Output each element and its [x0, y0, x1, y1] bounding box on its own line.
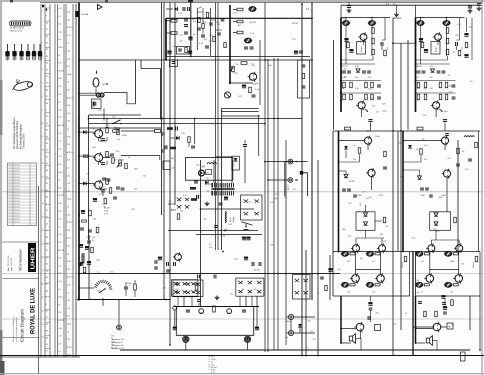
- bl res: [83, 267, 86, 273]
- amp B caps left dark: [419, 38, 423, 40]
- driver L top res: [345, 127, 351, 130]
- svg-text:C45: C45: [348, 235, 351, 237]
- svg-text:15k: 15k: [355, 77, 358, 79]
- amp A row wires: [341, 92, 381, 94]
- band rail y56.4: [166, 55, 310, 57]
- svg-text:4,7k: 4,7k: [368, 77, 371, 79]
- bus x274: [273, 58, 275, 350]
- amp B row1 caps: [417, 70, 421, 72]
- stage1 right resistor: [155, 130, 161, 133]
- record switch left: [172, 280, 198, 297]
- driver R top res: [417, 127, 423, 130]
- chain resistor R201: [237, 8, 243, 11]
- stage3 res c: [104, 198, 107, 204]
- band item x207: [205, 45, 209, 47]
- svg-text:12.5.70 geänd.: 12.5.70 geänd.: [9, 177, 21, 179]
- svg-text:22: 22: [42, 310, 44, 312]
- wire y128: [79, 127, 162, 129]
- br series chain R: [443, 306, 447, 308]
- bl cap pair: [81, 253, 83, 257]
- amp A row3 cap: [377, 96, 381, 98]
- stage transistor T3: [95, 181, 103, 189]
- svg-text:0,1: 0,1: [67, 168, 70, 170]
- amp A out wire: [370, 123, 372, 132]
- svg-text:bei Stellung Wiedergabe: bei Stellung Wiedergabe: [19, 123, 22, 149]
- svg-text:15k: 15k: [111, 336, 114, 338]
- bc extra caps: [154, 260, 156, 264]
- bus79 lower parts: [82, 220, 87, 222]
- svg-text:1k: 1k: [67, 331, 69, 333]
- monitor switch box: [293, 275, 311, 300]
- stage1 coupling res: [113, 130, 119, 133]
- osc cap C32: [194, 180, 198, 182]
- amp A bus top stub: [340, 5, 342, 17]
- svg-text:2,2k: 2,2k: [417, 88, 421, 90]
- svg-text:0,1: 0,1: [417, 77, 420, 79]
- ob0 oval a: [342, 252, 348, 256]
- driver L res right: [384, 151, 387, 157]
- amp A out arrow: [365, 109, 368, 112]
- bus x286: [285, 140, 287, 345]
- driver L transistor b: [368, 169, 375, 176]
- bc frame: [176, 307, 253, 336]
- chain trimmer P201: [230, 67, 234, 72]
- stage 2 collector res: [106, 151, 109, 157]
- din lower wires: [290, 320, 292, 331]
- bias wire y230.5: [168, 230, 258, 232]
- revision table: [8, 163, 37, 226]
- right mid column parts: [320, 276, 324, 278]
- svg-text:3: 3: [42, 56, 43, 58]
- driver R diode box: [430, 212, 451, 231]
- svg-text:19: 19: [42, 270, 44, 272]
- svg-text:C45: C45: [180, 34, 183, 36]
- driver R bottom transistor 1: [428, 245, 435, 252]
- bl wires: [118, 300, 120, 326]
- supply ecap pair: [242, 237, 246, 239]
- svg-text:Alle Spannungen gegen Masse: Alle Spannungen gegen Masse: [13, 116, 16, 149]
- svg-text:C45: C45: [179, 41, 182, 43]
- svg-text:10k: 10k: [67, 51, 70, 53]
- bc ecap left: [158, 257, 162, 259]
- svg-text:12.5.70 geänd.: 12.5.70 geänd.: [9, 222, 21, 224]
- scan edge left: [0, 0, 2, 375]
- br series chain L: [368, 302, 372, 304]
- svg-text:BC107: BC107: [292, 23, 299, 25]
- stage stub res 2: [84, 155, 89, 157]
- band extra cap a: [197, 27, 201, 29]
- center triple wire c: [222, 115, 259, 117]
- svg-text:17: 17: [42, 243, 44, 245]
- ob wire L: [341, 327, 356, 329]
- ob0 oval d: [367, 283, 373, 287]
- stage connect wires: [106, 119, 108, 128]
- bl res v: [134, 284, 137, 290]
- scan edge bottom: [0, 373, 484, 375]
- svg-text:Mat.Nr 1702: Mat.Nr 1702: [10, 29, 23, 32]
- din upper contact 2: [288, 178, 293, 183]
- svg-text:12.5.70 geänd.: 12.5.70 geänd.: [9, 210, 21, 212]
- svg-text:12.5.70 geänd.: 12.5.70 geänd.: [9, 198, 21, 200]
- svg-text:47n: 47n: [344, 77, 347, 79]
- din upper wire: [303, 173, 307, 196]
- svg-text:0,22: 0,22: [313, 339, 317, 341]
- left small box: [375, 325, 381, 331]
- amp B row1 caps b: [437, 70, 441, 72]
- band cap C102: [187, 7, 189, 11]
- stage3 ecap: [93, 198, 97, 200]
- amp A regler box: [357, 42, 366, 55]
- svg-text:5µ: 5µ: [359, 41, 361, 43]
- wire x160.5: [160, 69, 162, 119]
- svg-text:15k: 15k: [180, 211, 183, 213]
- ob0 res b: [375, 253, 380, 255]
- svg-text:BC107: BC107: [58, 70, 64, 72]
- scan fold line A: [0, 191, 484, 193]
- svg-text:22k: 22k: [234, 12, 237, 14]
- svg-text:BC: BC: [238, 25, 241, 27]
- bc jack b: [199, 309, 204, 314]
- stage2 out wire: [121, 155, 160, 157]
- amp A wire row2: [341, 80, 381, 82]
- driver R wires mid: [403, 161, 421, 163]
- svg-text:12.5.70 geänd.: 12.5.70 geänd.: [9, 192, 21, 194]
- primary box: [232, 156, 240, 170]
- stage1 out res: [117, 129, 120, 135]
- svg-text:47n: 47n: [362, 192, 365, 194]
- din upper feed wires: [265, 161, 288, 163]
- speaker stubs: [355, 338, 361, 340]
- br out transistor L: [356, 323, 364, 331]
- svg-text:0,47: 0,47: [202, 167, 206, 169]
- bl bus x89: [88, 235, 90, 300]
- svg-text:BC: BC: [93, 128, 96, 130]
- svg-text:Motor: Motor: [229, 217, 232, 222]
- din upper arrows: [295, 161, 298, 163]
- svg-text:12.5.70 geänd.: 12.5.70 geänd.: [9, 165, 21, 167]
- svg-text:0,1: 0,1: [58, 265, 61, 267]
- osc diode D30: [176, 136, 179, 140]
- driver L diode c: [344, 146, 348, 149]
- svg-text:10k: 10k: [347, 292, 350, 294]
- osc cap C31: [191, 145, 195, 147]
- svg-text:2,2k: 2,2k: [67, 58, 71, 60]
- chain bus x230 thick: [229, 5, 231, 83]
- bc cap row right: [251, 262, 253, 266]
- band cap C101: [182, 7, 184, 11]
- chain transistor T202: [249, 73, 256, 80]
- stage3 cap d: [113, 196, 117, 198]
- ob1 oval b: [445, 252, 451, 256]
- svg-text:Nachdruck und Vervielfältigung: Nachdruck und Vervielfältigung: [12, 317, 15, 342]
- svg-text:12.5.70 geänd.: 12.5.70 geänd.: [9, 174, 21, 176]
- ob res 400mW L: [404, 256, 407, 262]
- amp B out cap: [443, 119, 447, 121]
- svg-text:47n: 47n: [203, 22, 206, 24]
- svg-text:47n: 47n: [67, 316, 70, 318]
- svg-text:12.5.70 geänd.: 12.5.70 geänd.: [9, 180, 21, 182]
- bus x170: [169, 3, 171, 346]
- bus x161.5: [161, 3, 163, 216]
- bottom right connector: [461, 352, 466, 361]
- svg-text:6k8: 6k8: [171, 158, 174, 160]
- bus x164: [163, 3, 165, 301]
- bus x306: [305, 250, 307, 355]
- amp A row1 diode: [356, 69, 360, 72]
- svg-text:2,2k: 2,2k: [286, 189, 290, 191]
- output jack right: [246, 337, 250, 341]
- ob thick bus L low: [340, 296, 342, 343]
- mains cap left: [196, 195, 198, 199]
- svg-text:10: 10: [42, 150, 44, 152]
- svg-text:0,47: 0,47: [424, 145, 428, 147]
- signal wire y123.5: [89, 123, 266, 125]
- band cluster cap: [178, 48, 182, 50]
- svg-text:0,47: 0,47: [67, 238, 71, 240]
- twin box right parts: [302, 64, 306, 66]
- svg-text:nur mit Genehmigung gestattet: nur mit Genehmigung gestattet: [15, 317, 18, 342]
- ob frame left: [332, 252, 334, 297]
- amp A wires misc: [363, 40, 365, 45]
- svg-text:4,7k: 4,7k: [58, 258, 62, 260]
- rail y299.5: [77, 299, 170, 301]
- chain resistor R202: [237, 20, 243, 23]
- amp A transistor T3: [360, 34, 367, 41]
- chain resistor R203: [237, 31, 243, 34]
- driver L bottom transistor 2: [379, 245, 386, 252]
- mains bus x200.5: [200, 160, 202, 307]
- band extra res a: [198, 18, 200, 23]
- mains lower caps: [197, 275, 199, 279]
- bc cap b: [197, 299, 201, 301]
- svg-text:5µ: 5µ: [317, 292, 319, 294]
- svg-text:2,2k: 2,2k: [67, 183, 71, 185]
- br emitter res: [424, 311, 427, 317]
- svg-text:15: 15: [42, 217, 44, 219]
- head network cap: [93, 102, 95, 106]
- svg-text:Regler: Regler: [436, 46, 438, 52]
- transformer caps: [219, 202, 223, 204]
- amp A left wire: [333, 40, 335, 130]
- coil res: [475, 142, 478, 148]
- amp top rail y131: [333, 130, 480, 132]
- svg-text:47n: 47n: [67, 66, 70, 68]
- svg-text:0,1: 0,1: [372, 261, 375, 263]
- junction dots global: [301, 4, 303, 6]
- driver R bottom wires: [435, 230, 437, 240]
- svg-text:6,8k: 6,8k: [355, 66, 359, 68]
- bc jack a: [173, 306, 177, 310]
- svg-text:10k: 10k: [58, 24, 61, 26]
- stage 1 emitter cap: [101, 138, 105, 140]
- record line y18.3: [166, 17, 312, 19]
- speaker right: [426, 338, 429, 343]
- amp B wire row1: [416, 63, 450, 65]
- bias coil: [207, 163, 210, 165]
- amp A row1 caps b: [362, 70, 366, 72]
- sidebar divider vertical: [38, 186, 40, 374]
- bus x190.8: [190, 2, 192, 57]
- svg-text:15k: 15k: [58, 219, 61, 221]
- svg-text:22k: 22k: [248, 202, 251, 204]
- svg-text:400mW: 400mW: [402, 262, 404, 268]
- amp A row2 cap: [377, 84, 381, 86]
- bc ecap 2: [255, 327, 259, 329]
- stage 2 base stub: [79, 155, 95, 157]
- parts table header marks: [42, 5, 44, 8]
- svg-text:0,1µ: 0,1µ: [231, 165, 235, 167]
- svg-text:3,3k: 3,3k: [181, 133, 185, 135]
- amp A oval transistor b: [369, 21, 375, 25]
- box left x221.5: [221, 109, 223, 251]
- scan edge right: [481, 0, 483, 375]
- br vert x470: [469, 296, 471, 330]
- svg-text:13: 13: [42, 190, 44, 192]
- svg-text:100µ: 100µ: [273, 198, 278, 200]
- ob1 oval d: [445, 283, 451, 287]
- wire y68.5: [141, 68, 161, 70]
- stage2 pot: [119, 160, 122, 166]
- svg-text:3,3k: 3,3k: [67, 261, 71, 263]
- amp B top rail: [416, 17, 465, 19]
- center triple wire a: [222, 108, 259, 110]
- stage 1 base stub: [79, 131, 95, 133]
- mains lower gnd: [216, 296, 218, 298]
- bc jack wires: [185, 343, 187, 351]
- svg-text:Regler: Regler: [361, 46, 363, 52]
- svg-text:2,2k: 2,2k: [58, 156, 62, 158]
- driver L box diode 1: [364, 213, 368, 216]
- sidebar divider h3: [3, 337, 39, 339]
- svg-text:12.5.70 geänd.: 12.5.70 geänd.: [9, 204, 21, 206]
- band resistor R101: [171, 20, 177, 23]
- bottom rail y355.5: [0, 355, 484, 357]
- osc resistor R35: [177, 214, 180, 220]
- svg-text:0,1µ: 0,1µ: [117, 139, 121, 141]
- svg-text:3k3: 3k3: [225, 229, 228, 231]
- svg-text:18: 18: [42, 257, 44, 259]
- svg-text:3,3k: 3,3k: [67, 136, 71, 138]
- bus x215.5: [215, 3, 217, 251]
- scan fold line C: [0, 318, 484, 320]
- ob1 res b: [453, 253, 458, 255]
- amp B oval transistor a: [417, 21, 423, 25]
- svg-text:15k: 15k: [236, 64, 239, 66]
- svg-text:0,1µ: 0,1µ: [412, 238, 416, 240]
- wire x141: [140, 60, 142, 69]
- band marks x203: [202, 24, 204, 29]
- br dark cap: [441, 295, 445, 297]
- osc wires: [188, 142, 190, 147]
- band cluster box: [177, 47, 190, 55]
- svg-text:9: 9: [42, 136, 43, 138]
- svg-text:4,7k: 4,7k: [58, 133, 62, 135]
- svg-text:15k: 15k: [92, 237, 95, 239]
- supply cap a: [214, 225, 218, 227]
- svg-text:4,7k: 4,7k: [67, 160, 71, 162]
- band cap C105: [184, 31, 188, 33]
- svg-text:BC107: BC107: [58, 320, 64, 322]
- driver L dots: [338, 140, 340, 142]
- svg-text:22k: 22k: [230, 294, 233, 296]
- osc cap C30: [164, 145, 166, 149]
- svg-text:12.5.70 geänd.: 12.5.70 geänd.: [9, 183, 21, 185]
- svg-text:100µ: 100µ: [444, 111, 448, 113]
- svg-text:1k: 1k: [58, 180, 60, 182]
- ob1 oval a: [416, 252, 422, 256]
- amp A out transistor: [358, 102, 365, 109]
- band extra cap c: [217, 32, 221, 34]
- driver R box diode 2: [434, 222, 438, 225]
- svg-text:21: 21: [42, 297, 44, 299]
- box bottom rail y60: [79, 59, 312, 61]
- primary diode: [234, 158, 238, 161]
- amp B right vert: [471, 18, 473, 61]
- driver R cap top: [445, 133, 449, 135]
- driver L wires: [339, 140, 365, 142]
- svg-text:4,7k: 4,7k: [430, 66, 434, 68]
- svg-text:R12: R12: [385, 226, 388, 228]
- svg-text:10k: 10k: [58, 273, 61, 275]
- svg-text:2: 2: [42, 42, 43, 44]
- svg-text:47n: 47n: [310, 331, 313, 333]
- chain transistor T201: [245, 38, 251, 42]
- svg-text:22k: 22k: [67, 214, 70, 216]
- svg-text:10k: 10k: [198, 8, 201, 10]
- svg-text:2k2: 2k2: [372, 105, 375, 107]
- br small box: [447, 323, 453, 329]
- bus x210.5: [210, 8, 212, 56]
- head network box: [92, 99, 102, 109]
- amp A row3 res: [343, 94, 346, 100]
- ob1 res c: [424, 284, 429, 286]
- svg-text:400mW: 400mW: [473, 262, 475, 268]
- top supply wire: [341, 4, 480, 6]
- din lower feed wires: [286, 316, 288, 318]
- svg-text:1k: 1k: [58, 55, 60, 57]
- svg-text:4,7k: 4,7k: [67, 285, 71, 287]
- lower row a: [80, 227, 84, 229]
- bus x197.3: [196, 8, 198, 50]
- svg-text:3,3k: 3,3k: [58, 109, 62, 111]
- stage2 res b: [112, 158, 115, 164]
- svg-text:ROYAL DE LUXE: ROYAL DE LUXE: [29, 288, 36, 334]
- svg-text:2,2k: 2,2k: [58, 281, 62, 283]
- amp A wire row1: [341, 63, 375, 65]
- svg-text:2,2k: 2,2k: [67, 308, 71, 310]
- bus x260: [259, 40, 261, 105]
- svg-text:4,7k: 4,7k: [183, 195, 187, 197]
- svg-text:0,47: 0,47: [67, 113, 71, 115]
- svg-text:10k: 10k: [169, 201, 172, 203]
- bc ecap 1: [173, 327, 177, 329]
- driver R zener: [418, 176, 422, 179]
- erase head connector: [97, 93, 101, 97]
- driver L box diode 2: [364, 222, 368, 225]
- svg-text:22k: 22k: [353, 159, 356, 161]
- bc switch drop wires: [177, 296, 179, 306]
- stage 1 collector res: [106, 127, 109, 133]
- svg-text:1: 1: [42, 29, 43, 31]
- svg-text:5: 5: [42, 83, 43, 85]
- svg-text:3k3: 3k3: [360, 258, 363, 260]
- svg-text:12.5.70 geänd.: 12.5.70 geänd.: [9, 213, 21, 215]
- twin box left: [170, 60, 178, 67]
- svg-text:22k: 22k: [58, 312, 61, 314]
- osc relay box: [163, 161, 170, 169]
- amp A thick bus: [340, 18, 342, 113]
- amp A row1 caps: [342, 70, 346, 72]
